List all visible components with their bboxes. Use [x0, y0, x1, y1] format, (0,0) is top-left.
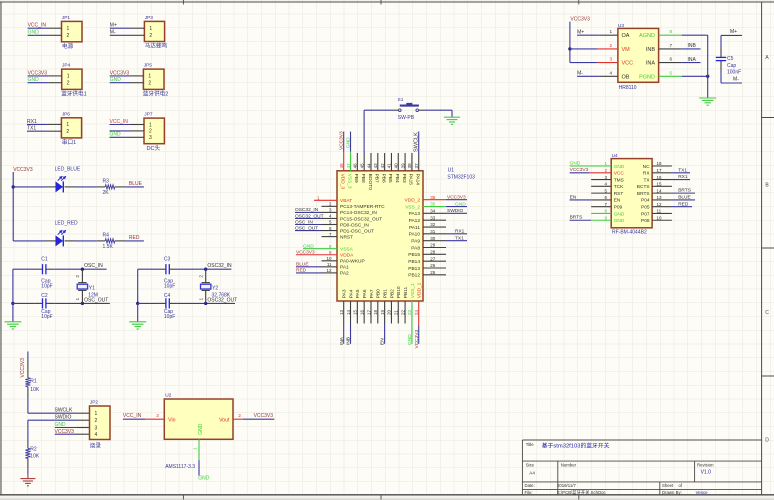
svg-text:EN: EN: [380, 338, 386, 345]
svg-text:PB15: PB15: [408, 252, 420, 258]
svg-text:C4: C4: [164, 293, 171, 299]
svg-text:JP2: JP2: [90, 400, 99, 406]
svg-text:PA8: PA8: [411, 245, 420, 251]
svg-text:STM32F103: STM32F103: [447, 175, 475, 181]
svg-text:File:: File:: [525, 490, 533, 495]
svg-text:PB7: PB7: [374, 174, 380, 183]
svg-text:GND: GND: [614, 164, 625, 170]
svg-text:OB: OB: [622, 74, 630, 80]
svg-text:U4: U4: [612, 153, 618, 159]
svg-text:V1.0: V1.0: [701, 470, 712, 476]
svg-text:RX: RX: [643, 171, 650, 177]
svg-text:GND: GND: [198, 476, 210, 482]
svg-text:1: 1: [149, 26, 152, 32]
svg-text:10pF: 10pF: [164, 284, 175, 290]
svg-text:RX1: RX1: [678, 174, 688, 180]
svg-text:R3: R3: [103, 179, 110, 185]
svg-text:Title: Title: [526, 442, 535, 447]
svg-text:1: 1: [67, 26, 70, 32]
svg-text:1.5K: 1.5K: [103, 244, 114, 250]
svg-text:INB: INB: [346, 337, 352, 345]
svg-text:2: 2: [149, 129, 152, 135]
svg-text:TX1: TX1: [27, 126, 36, 132]
svg-text:R4: R4: [103, 233, 110, 239]
svg-text:PC14-OSC32_IN: PC14-OSC32_IN: [340, 210, 377, 216]
svg-text:OSC_OUT: OSC_OUT: [295, 225, 318, 231]
svg-text:D: D: [765, 438, 769, 444]
svg-text:PA7: PA7: [369, 289, 375, 298]
svg-text:32.768K: 32.768K: [212, 293, 231, 299]
svg-text:SWDIO: SWDIO: [447, 208, 464, 214]
svg-text:VSS_1: VSS_1: [410, 283, 416, 298]
svg-text:2: 2: [67, 33, 70, 39]
svg-text:VDDA: VDDA: [340, 253, 354, 259]
svg-text:8: 8: [669, 29, 672, 34]
svg-text:PA3: PA3: [342, 289, 348, 298]
svg-text:OSC32_OUT: OSC32_OUT: [295, 213, 324, 219]
svg-text:C5: C5: [727, 56, 734, 62]
svg-text:VM: VM: [622, 47, 631, 53]
svg-text:5: 5: [669, 70, 672, 75]
svg-text:PA1: PA1: [340, 265, 349, 271]
svg-text:VCC3V3: VCC3V3: [570, 167, 589, 173]
svg-text:P07: P07: [641, 211, 650, 217]
svg-text:VCC_IN: VCC_IN: [28, 23, 47, 29]
svg-text:GND: GND: [407, 334, 413, 345]
svg-text:TCK: TCK: [614, 184, 624, 190]
svg-text:串口1: 串口1: [62, 138, 76, 146]
svg-text:INA: INA: [339, 336, 345, 345]
svg-text:1: 1: [67, 74, 70, 80]
svg-text:10K: 10K: [30, 387, 40, 393]
svg-text:PA11: PA11: [409, 225, 420, 231]
svg-text:Number: Number: [561, 463, 577, 468]
svg-text:VSSA: VSSA: [340, 247, 354, 253]
svg-text:VCC3V3: VCC3V3: [414, 330, 420, 349]
svg-text:1: 1: [609, 29, 612, 34]
svg-text:1: 1: [95, 411, 98, 417]
svg-text:2: 2: [66, 129, 69, 135]
svg-text:JP7: JP7: [144, 112, 153, 118]
svg-text:PB4: PB4: [394, 174, 400, 183]
svg-text:2019/11/7: 2019/11/7: [557, 483, 576, 488]
svg-text:2: 2: [67, 81, 70, 87]
svg-text:VSS_2: VSS_2: [405, 204, 420, 210]
svg-text:TX1: TX1: [455, 235, 464, 241]
svg-text:VCC_IN: VCC_IN: [123, 413, 142, 419]
svg-text:GND: GND: [198, 423, 204, 435]
svg-text:PA4: PA4: [348, 289, 354, 298]
svg-text:EN: EN: [614, 198, 621, 204]
svg-text:PB9: PB9: [353, 174, 359, 183]
svg-text:VSS_3: VSS_3: [346, 174, 352, 189]
svg-text:Vence: Vence: [696, 490, 709, 495]
svg-text:1: 1: [66, 122, 69, 128]
svg-text:BLUE: BLUE: [129, 181, 143, 187]
svg-text:2: 2: [238, 413, 241, 418]
svg-text:基于stm32f103的蓝牙开关: 基于stm32f103的蓝牙开关: [542, 441, 610, 449]
svg-text:PC15-OSC32_OUT: PC15-OSC32_OUT: [340, 216, 382, 222]
svg-text:M+: M+: [110, 23, 117, 29]
svg-text:电源: 电源: [62, 42, 74, 50]
svg-text:PA12: PA12: [409, 218, 421, 224]
svg-text:C: C: [765, 310, 769, 316]
svg-text:P09: P09: [614, 204, 623, 210]
svg-text:PA10: PA10: [409, 232, 421, 238]
svg-text:Vin: Vin: [168, 418, 176, 424]
svg-text:GND: GND: [110, 77, 122, 83]
svg-text:P08: P08: [641, 218, 650, 224]
svg-text:PB6: PB6: [380, 174, 386, 183]
svg-text:JP1: JP1: [62, 15, 71, 21]
svg-text:PB2: PB2: [389, 289, 395, 298]
svg-text:M-: M-: [733, 77, 739, 83]
svg-text:1: 1: [149, 122, 152, 128]
svg-text:3: 3: [609, 57, 612, 62]
svg-text:AMS1117-3.3: AMS1117-3.3: [165, 464, 195, 470]
svg-text:RED: RED: [678, 201, 689, 207]
svg-text:EN: EN: [570, 194, 577, 200]
svg-text:PA6: PA6: [362, 289, 368, 298]
svg-text:BRTS: BRTS: [570, 215, 583, 221]
svg-text:INA: INA: [688, 57, 697, 63]
svg-text:OA: OA: [622, 33, 630, 39]
svg-text:VCC3V3: VCC3V3: [254, 413, 274, 419]
svg-text:TMS: TMS: [614, 177, 624, 183]
svg-text:4: 4: [95, 432, 98, 438]
svg-text:6: 6: [669, 57, 672, 62]
svg-text:Date:: Date:: [525, 483, 535, 488]
svg-text:PC13-TAMPER-RTC: PC13-TAMPER-RTC: [340, 204, 385, 210]
svg-text:PA5: PA5: [355, 289, 361, 298]
svg-text:P04: P04: [641, 198, 650, 204]
svg-text:JP3: JP3: [145, 15, 154, 21]
svg-text:烧录: 烧录: [90, 441, 102, 449]
svg-text:PB1: PB1: [383, 289, 389, 298]
svg-text:3: 3: [95, 425, 98, 431]
svg-text:GND: GND: [345, 137, 351, 148]
svg-text:PB5: PB5: [387, 174, 393, 183]
svg-text:RED: RED: [129, 235, 140, 241]
svg-text:C2: C2: [41, 293, 48, 299]
svg-text:E:\PCB\蓝牙开关.SchDoc: E:\PCB\蓝牙开关.SchDoc: [557, 489, 607, 496]
svg-text:LED_RED: LED_RED: [55, 221, 78, 227]
svg-text:马达蜂鸣: 马达蜂鸣: [145, 42, 168, 50]
svg-text:NC: NC: [643, 164, 650, 170]
svg-text:OSC32_IN: OSC32_IN: [295, 207, 319, 213]
svg-text:VCC3V3: VCC3V3: [13, 167, 33, 173]
svg-text:P05: P05: [641, 204, 650, 210]
svg-text:GND: GND: [110, 132, 122, 138]
svg-text:PB13: PB13: [408, 266, 420, 272]
svg-text:SWDIO: SWDIO: [55, 415, 72, 421]
svg-text:BLUE: BLUE: [678, 195, 691, 201]
svg-text:VCC3V3: VCC3V3: [28, 70, 48, 76]
svg-text:HR8110: HR8110: [619, 85, 637, 91]
svg-text:A4: A4: [529, 470, 535, 475]
svg-text:TX1: TX1: [678, 167, 687, 173]
svg-text:VCC3V3: VCC3V3: [296, 250, 315, 256]
svg-text:M+: M+: [730, 29, 737, 35]
svg-text:C1: C1: [41, 257, 48, 263]
svg-text:PB11: PB11: [403, 286, 409, 298]
svg-text:VCC3V3: VCC3V3: [447, 195, 466, 201]
svg-text:PA9: PA9: [411, 238, 420, 244]
svg-text:GND: GND: [614, 211, 625, 217]
svg-text:VCC: VCC: [622, 61, 634, 67]
svg-text:SW-PB: SW-PB: [398, 115, 415, 121]
svg-text:PA15: PA15: [408, 174, 414, 186]
svg-text:PB14: PB14: [408, 259, 420, 265]
svg-text:INB: INB: [646, 47, 656, 53]
svg-text:10K: 10K: [30, 454, 40, 460]
svg-text:Y1: Y1: [89, 286, 95, 292]
svg-text:GND: GND: [28, 77, 39, 83]
svg-text:PB12: PB12: [408, 273, 420, 279]
svg-text:U3: U3: [618, 23, 624, 29]
svg-text:Sheet: Sheet: [662, 483, 674, 488]
svg-text:VBAT: VBAT: [340, 198, 352, 204]
svg-text:PA0-WKUP: PA0-WKUP: [340, 259, 365, 265]
svg-text:INB: INB: [688, 43, 697, 49]
svg-text:10pF: 10pF: [41, 284, 52, 290]
svg-text:BLUE: BLUE: [296, 262, 309, 268]
svg-text:VCC_IN: VCC_IN: [110, 119, 129, 125]
svg-text:PB8: PB8: [360, 174, 366, 183]
svg-text:Vout: Vout: [219, 418, 230, 424]
svg-text:TX: TX: [643, 177, 650, 183]
svg-text:PA2: PA2: [340, 271, 349, 277]
svg-text:12M: 12M: [88, 293, 98, 299]
svg-text:DC头: DC头: [147, 144, 161, 152]
svg-text:BCTS: BCTS: [637, 184, 650, 190]
svg-text:OSC_IN: OSC_IN: [84, 263, 103, 269]
svg-text:PA13: PA13: [409, 211, 421, 217]
svg-text:VCC3V3: VCC3V3: [570, 17, 590, 23]
svg-text:OSC_IN: OSC_IN: [295, 219, 313, 225]
svg-text:RX1: RX1: [455, 229, 465, 235]
svg-text:2K: 2K: [103, 190, 110, 196]
svg-text:10pF: 10pF: [164, 314, 175, 320]
svg-text:2: 2: [149, 33, 152, 39]
svg-text:GND: GND: [455, 201, 466, 207]
svg-text:100nF: 100nF: [727, 69, 741, 75]
svg-text:4: 4: [609, 70, 612, 75]
svg-text:SWCLK: SWCLK: [413, 132, 419, 152]
svg-text:JP5: JP5: [144, 63, 153, 69]
svg-text:PD0-OSC_IN: PD0-OSC_IN: [340, 222, 369, 228]
svg-text:RX1: RX1: [27, 119, 37, 125]
svg-text:11: 11: [327, 262, 332, 267]
svg-text:PA14: PA14: [415, 174, 421, 186]
svg-text:GND: GND: [614, 218, 625, 224]
svg-text:BRTS: BRTS: [678, 188, 691, 194]
svg-text:INA: INA: [646, 61, 656, 67]
svg-text:VCC3V3: VCC3V3: [20, 358, 26, 378]
svg-text:1: 1: [148, 74, 151, 80]
svg-text:VDD_1: VDD_1: [417, 282, 423, 298]
svg-text:Size: Size: [526, 463, 535, 468]
svg-text:NRST: NRST: [340, 234, 353, 240]
svg-text:Y2: Y2: [212, 286, 218, 292]
svg-text:PB0: PB0: [376, 289, 382, 298]
svg-text:JP6: JP6: [62, 111, 71, 117]
svg-text:RST: RST: [614, 191, 624, 197]
svg-text:GND: GND: [28, 30, 39, 36]
svg-text:BRTS: BRTS: [637, 191, 650, 197]
svg-text:PB3: PB3: [401, 174, 407, 183]
svg-text:Cap: Cap: [727, 63, 736, 69]
svg-text:VCC3V3: VCC3V3: [110, 70, 130, 76]
svg-text:U1: U1: [448, 167, 455, 173]
svg-text:Revision: Revision: [697, 463, 714, 468]
svg-text:Drawn By:: Drawn By:: [662, 490, 682, 495]
svg-text:C3: C3: [164, 257, 171, 263]
svg-text:S1: S1: [398, 97, 404, 103]
svg-text:BOOT0: BOOT0: [367, 174, 373, 191]
svg-text:蓝牙供电1: 蓝牙供电1: [61, 90, 86, 98]
svg-text:U2: U2: [165, 393, 171, 399]
svg-text:2: 2: [148, 81, 151, 87]
svg-text:VCC: VCC: [614, 171, 625, 177]
svg-text:R2: R2: [30, 447, 37, 453]
svg-text:10pF: 10pF: [41, 314, 52, 320]
svg-text:LED_BLUE: LED_BLUE: [55, 167, 81, 173]
svg-text:OSC32_IN: OSC32_IN: [207, 263, 232, 269]
svg-text:1: 1: [192, 447, 197, 450]
svg-text:3: 3: [149, 135, 152, 141]
svg-text:SWCLK: SWCLK: [55, 408, 73, 414]
svg-text:2: 2: [95, 418, 98, 424]
svg-text:PD1-OSC_OUT: PD1-OSC_OUT: [340, 228, 374, 234]
svg-text:2: 2: [609, 43, 612, 48]
svg-text:GND: GND: [303, 244, 314, 250]
svg-text:RED: RED: [296, 268, 307, 274]
svg-text:R1: R1: [30, 378, 37, 384]
svg-text:AGND: AGND: [639, 33, 655, 39]
svg-text:7: 7: [669, 43, 672, 48]
svg-text:VCC3V3: VCC3V3: [339, 131, 345, 150]
svg-text:PGND: PGND: [639, 74, 655, 80]
svg-text:M-: M-: [110, 30, 116, 36]
svg-text:RF-BM-4044B2: RF-BM-4044B2: [612, 229, 647, 235]
svg-text:VDD_3: VDD_3: [340, 174, 346, 190]
svg-text:3: 3: [156, 413, 159, 418]
svg-text:蓝牙供电2: 蓝牙供电2: [143, 90, 169, 98]
svg-text:27: 27: [430, 256, 436, 261]
svg-text:VDD_2: VDD_2: [405, 198, 421, 204]
svg-text:JP4: JP4: [62, 63, 71, 69]
svg-text:GND: GND: [570, 160, 581, 166]
svg-text:PB10: PB10: [396, 286, 402, 298]
